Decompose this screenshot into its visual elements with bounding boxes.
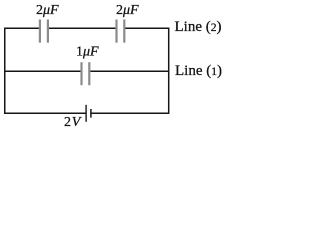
svg-text:2V: 2V (64, 115, 82, 129)
capacitor C1 2uF left plate (39, 20, 41, 43)
wire: top line segment left (4, 27, 39, 29)
svg-text:2μF: 2μF (116, 3, 139, 18)
capacitor C1 2uF right plate (47, 20, 49, 43)
svg-text:2μF: 2μF (36, 3, 59, 18)
capacitor C2 2uF left plate (115, 20, 117, 43)
wire: middle line segment right (90, 70, 169, 72)
wire: bottom line segment left (4, 112, 86, 114)
capacitor C2 2uF right plate (123, 20, 125, 43)
battery V1 short plate (90, 109, 92, 118)
wire: top line segment middle (49, 27, 116, 29)
wire: left vertical (4, 28, 6, 115)
battery V1 long plate (85, 105, 87, 122)
capacitor C3 1uF left plate (80, 62, 82, 85)
wire: top line segment right (125, 27, 169, 29)
wire: bottom line segment right (91, 112, 169, 114)
svg-text:1μF: 1μF (76, 45, 99, 60)
wire: middle line segment left (4, 70, 81, 72)
svg-text:Line (2): Line (2) (175, 19, 222, 35)
capacitor C3 1uF right plate (88, 62, 90, 85)
wire: right vertical (168, 28, 170, 115)
svg-text:Line (1): Line (1) (175, 63, 222, 79)
